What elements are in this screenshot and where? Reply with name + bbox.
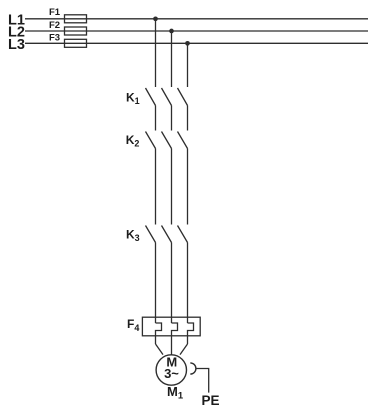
wire K1 to K2 phase 3	[187, 106, 189, 131]
wire K1 to K2 phase 2	[171, 106, 173, 131]
svg-text:F3: F3	[49, 33, 60, 44]
node junction L3 tap	[185, 41, 190, 46]
fuse F2	[65, 27, 87, 35]
fuse F1	[65, 15, 87, 23]
overload relay F4 heater element phase 2	[172, 323, 178, 355]
wire K3 to F4 phase 3	[187, 243, 189, 324]
node junction L1 tap	[153, 16, 158, 21]
wire K3 to F4 phase 2	[171, 243, 173, 324]
contactor K1 pole 3	[178, 88, 188, 106]
svg-text:K1: K1	[126, 91, 140, 107]
node junction L2 tap	[169, 29, 174, 34]
wire drop from L1 to K1	[155, 19, 157, 87]
svg-text:3~: 3~	[164, 366, 179, 381]
wire PE connection	[196, 369, 209, 393]
svg-text:M1: M1	[167, 384, 184, 402]
svg-text:F1: F1	[49, 7, 61, 18]
wire K2 to K3 phase 2	[171, 149, 173, 225]
contactor K2 pole 2	[162, 132, 172, 149]
svg-text:L3: L3	[8, 37, 25, 53]
contactor K2 pole 3	[178, 132, 188, 149]
overload relay F4 heater element phase 1	[156, 323, 162, 344]
wire K2 to K3 phase 1	[155, 149, 157, 225]
overload relay F4 box	[142, 317, 200, 336]
svg-text:F4: F4	[127, 317, 139, 333]
PE terminal arc	[190, 363, 196, 374]
fuse F3	[65, 39, 87, 47]
wire K3 to F4 phase 1	[155, 243, 157, 324]
wire L2 phase line	[25, 30, 368, 32]
contactor K1 pole 1	[146, 88, 156, 106]
motor M1 circle	[156, 355, 186, 385]
svg-text:F2: F2	[49, 20, 60, 31]
wire K2 to K3 phase 3	[187, 149, 189, 225]
overload relay F4 heater element phase 3	[188, 323, 194, 344]
contactor K3 pole 3	[178, 226, 188, 243]
svg-text:PE: PE	[202, 393, 220, 408]
contactor K3 pole 2	[162, 226, 172, 243]
contactor K3 pole 1	[146, 226, 156, 243]
wire motor lead phase 1	[156, 344, 164, 355]
wire drop from L3 to K1	[187, 43, 189, 87]
contactor K2 pole 1	[146, 132, 156, 149]
wire drop from L2 to K1	[171, 31, 173, 87]
svg-text:K3: K3	[126, 228, 140, 244]
contactor K1 pole 2	[162, 88, 172, 106]
wire motor lead phase 3	[180, 344, 188, 355]
wire L3 phase line	[25, 42, 368, 44]
wire L1 phase line	[25, 18, 368, 20]
svg-text:K2: K2	[126, 133, 140, 149]
wire K1 to K2 phase 1	[155, 106, 157, 131]
